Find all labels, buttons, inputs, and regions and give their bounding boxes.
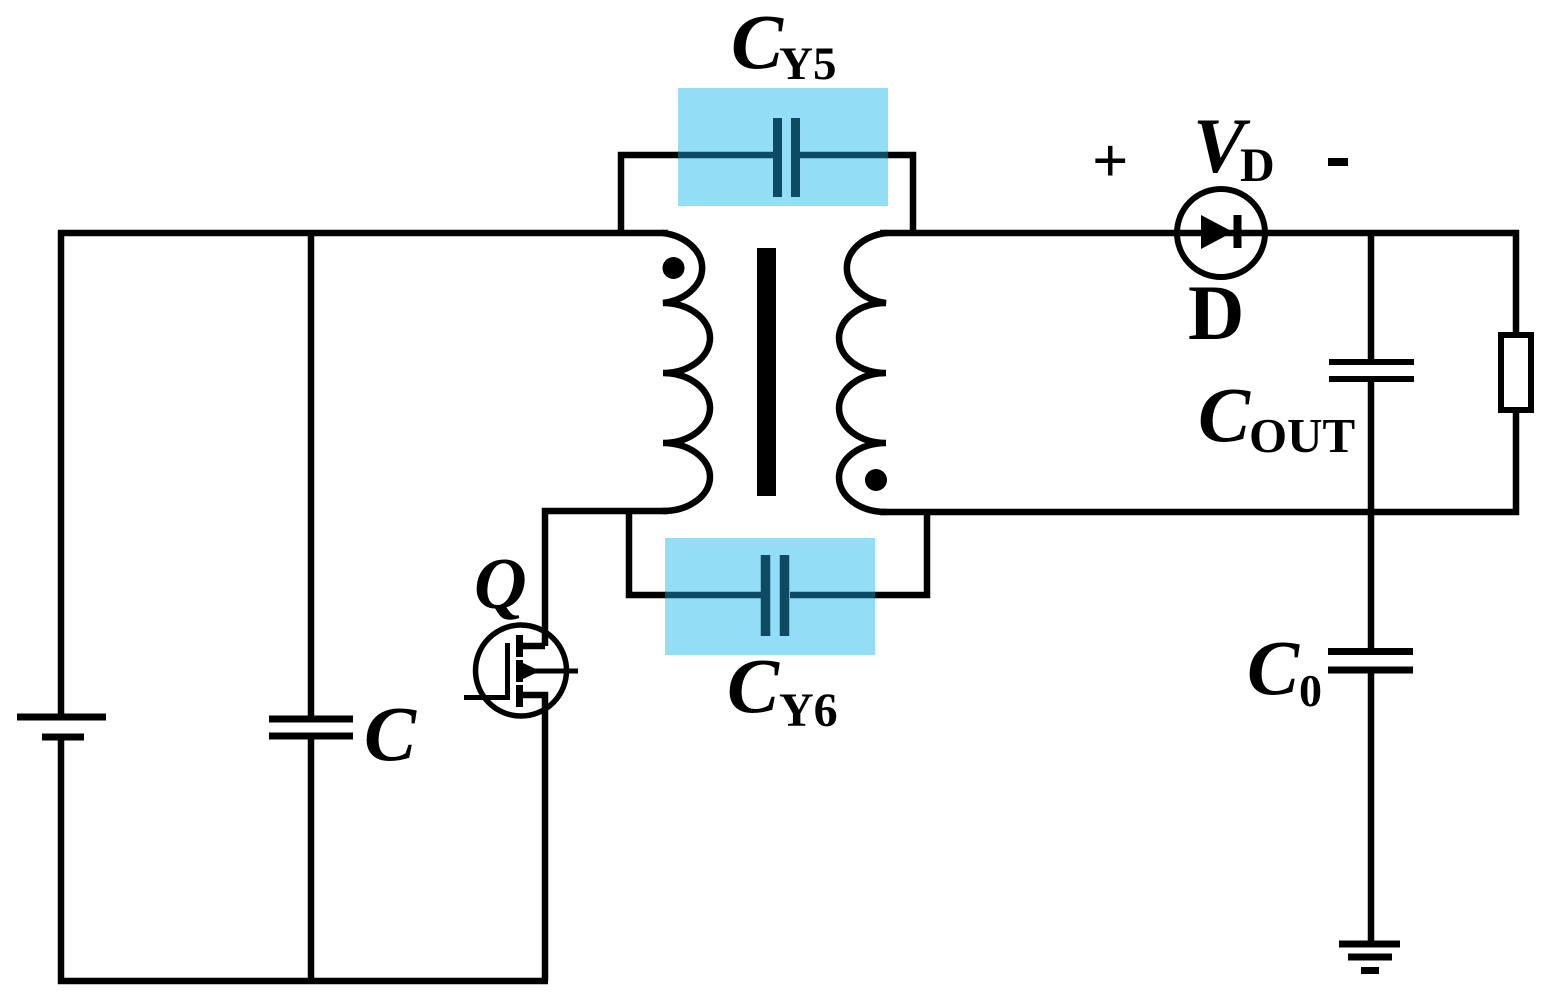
wire bottom net: [58, 978, 548, 985]
wire source to bottom net: [522, 695, 545, 981]
svg-text:+: +: [1092, 125, 1128, 196]
svg-text:C: C: [364, 690, 417, 777]
wire top left net: [58, 230, 668, 237]
svg-text:Q: Q: [474, 543, 527, 624]
transformer core: [757, 248, 776, 496]
label C0: [1247, 624, 1322, 716]
svg-text:C: C: [731, 0, 784, 85]
label CY5: [731, 0, 836, 90]
wire right vertical lower: [1513, 408, 1520, 515]
label VD: [1193, 102, 1275, 192]
wire secondary bottom net: [880, 509, 1519, 516]
wire CY5 right stub: [887, 155, 913, 233]
label COUT: [1198, 371, 1355, 463]
wire C0 branch upper: [1368, 512, 1375, 649]
wire CY6 left stub: [629, 511, 666, 595]
transformer secondary polarity dot: [865, 469, 887, 491]
svg-text:Y5: Y5: [779, 38, 836, 90]
label CY6: [727, 642, 838, 737]
capacitor CY6: [665, 555, 875, 636]
svg-text:D: D: [1188, 269, 1244, 356]
wire COUT branch lower: [1368, 379, 1375, 515]
capacitor C0: [1328, 652, 1413, 671]
svg-text:C: C: [1247, 624, 1300, 711]
wire secondary top net: [880, 230, 1519, 237]
svg-text:C: C: [727, 642, 780, 729]
wire right vertical upper: [1513, 230, 1520, 338]
svg-text:0: 0: [1299, 665, 1322, 716]
capacitor COUT: [1329, 362, 1414, 379]
svg-text:Y6: Y6: [779, 684, 838, 737]
wire left battery branch lower: [58, 737, 65, 984]
wire primary bottom to drain: [545, 511, 668, 646]
capacitor CY5: [678, 118, 888, 197]
wire C0 branch lower: [1368, 670, 1375, 941]
ground: [1339, 944, 1400, 971]
capacitor CY6 highlight box: [665, 538, 875, 655]
capacitor CY5 highlight box: [678, 88, 888, 206]
wire capacitor C branch upper: [308, 230, 315, 719]
svg-text:D: D: [1240, 139, 1275, 192]
label minus: [1328, 158, 1348, 166]
wire capacitor C branch lower: [308, 736, 315, 981]
wire COUT branch upper: [1368, 233, 1375, 362]
wire left battery branch upper: [58, 230, 65, 718]
resistor load: [1501, 335, 1531, 410]
battery VIN: [17, 717, 106, 737]
diode D: [1176, 189, 1266, 277]
transformer primary winding: [663, 233, 710, 511]
capacitor C: [269, 719, 353, 736]
svg-text:C: C: [1198, 371, 1251, 458]
transformer primary polarity dot: [663, 257, 685, 279]
transistor Q (MOSFET): [464, 625, 578, 716]
svg-text:OUT: OUT: [1249, 408, 1355, 463]
wire CY6 right stub: [874, 512, 927, 595]
wire CY5 left stub: [621, 155, 679, 233]
transformer secondary winding: [839, 233, 886, 512]
